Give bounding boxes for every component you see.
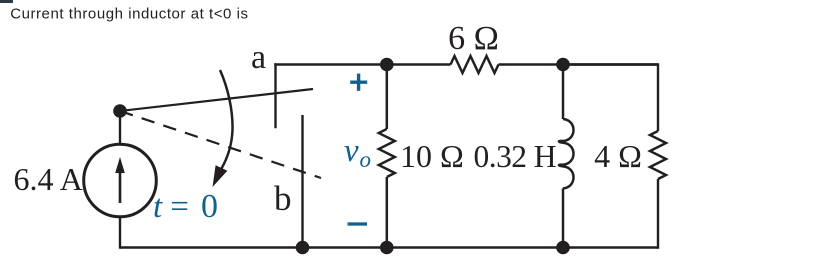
wire: right edge bottom segment [657, 179, 659, 249]
svg-text:4 Ω: 4 Ω [594, 138, 642, 174]
resistor 10 ohm branch [379, 65, 395, 248]
svg-text:b: b [274, 179, 292, 218]
wire: left branch, pivot to source [119, 111, 121, 145]
inductor 0.32 H branch [559, 65, 574, 248]
svg-text:t: t [153, 189, 163, 225]
polarity - [348, 222, 368, 225]
node: top of 10 ohm branch [380, 58, 394, 72]
resistor 4 ohm [650, 131, 666, 179]
label v_o [344, 133, 371, 172]
svg-text:6.4 A: 6.4 A [14, 161, 83, 197]
terminal a lead [274, 63, 276, 128]
node: junction b / bottom rail [296, 241, 310, 255]
switch SW1 blade (solid, at position a) [120, 89, 313, 111]
tab marker (top-left dark bar) [0, 0, 13, 3]
terminal b lead [301, 115, 303, 248]
svg-text:6 Ω: 6 Ω [448, 20, 499, 57]
svg-text:0.32 H: 0.32 H [474, 139, 556, 174]
switch SW1 thrown position (dashed toward b) [120, 111, 321, 178]
svg-text:a: a [251, 39, 266, 76]
wire: left branch, source to bottom rail [119, 217, 121, 249]
svg-text:10 Ω: 10 Ω [400, 138, 464, 174]
resistor 6 ohm [451, 56, 499, 73]
switch motion arc arrow [213, 70, 233, 187]
svg-text:o: o [360, 147, 372, 172]
wire: top rail left segment [274, 63, 450, 65]
current source I1 6.4 A [84, 144, 157, 217]
svg-text:=: = [170, 189, 189, 225]
wire: bottom rail [120, 246, 658, 248]
node: top of inductor branch [556, 58, 570, 72]
node: bottom of 10 ohm branch [380, 241, 394, 255]
svg-text:v: v [344, 133, 359, 169]
node: bottom of inductor branch [556, 241, 570, 255]
wire: top rail right segment [499, 63, 659, 65]
node: switch pivot [113, 104, 127, 118]
svg-text:Current through inductor at t<: Current through inductor at t<0 is [10, 5, 248, 22]
wire: right edge top segment [563, 65, 658, 132]
polarity + [350, 74, 367, 91]
svg-text:0: 0 [201, 188, 218, 225]
